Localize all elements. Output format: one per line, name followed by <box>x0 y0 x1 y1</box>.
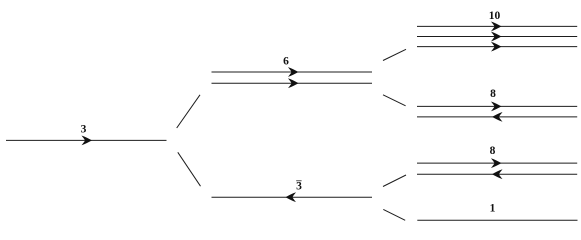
svg-text:1: 1 <box>490 202 496 214</box>
svg-text:8: 8 <box>490 145 496 157</box>
svg-text:6: 6 <box>283 55 289 67</box>
svg-text:3: 3 <box>296 181 302 193</box>
svg-text:3: 3 <box>81 123 87 135</box>
svg-text:10: 10 <box>489 10 501 22</box>
svg-text:8: 8 <box>490 88 496 100</box>
